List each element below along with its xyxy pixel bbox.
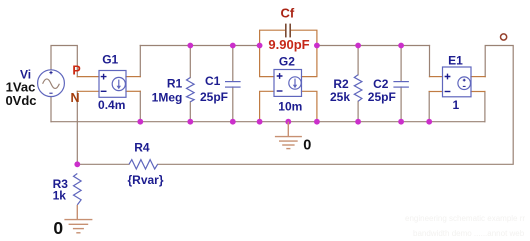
svg-text:25pF: 25pF: [368, 90, 396, 104]
svg-text:bandwidth demo ......annot we: bandwidth demo ......annot web: [413, 229, 525, 238]
svg-text:R1: R1: [167, 76, 183, 90]
svg-text:0Vdc: 0Vdc: [5, 93, 36, 108]
svg-text:0.4m: 0.4m: [98, 98, 125, 112]
svg-text:G1: G1: [102, 53, 118, 67]
svg-text:0: 0: [53, 218, 63, 238]
svg-text:{Rvar}: {Rvar}: [127, 173, 163, 187]
svg-text:G2: G2: [279, 54, 295, 68]
svg-text:1: 1: [452, 98, 459, 112]
svg-text:9.90pF: 9.90pF: [268, 37, 309, 52]
svg-text:C2: C2: [373, 77, 389, 91]
svg-text:10m: 10m: [278, 100, 302, 114]
svg-text:N: N: [70, 91, 79, 105]
svg-text:Cf: Cf: [281, 6, 295, 21]
svg-text:R2: R2: [333, 77, 349, 91]
svg-text:engineering schematic example: engineering schematic example rr: [405, 214, 525, 223]
svg-text:1Meg: 1Meg: [152, 91, 183, 105]
svg-text:25pF: 25pF: [200, 90, 228, 104]
svg-text:1k: 1k: [53, 188, 67, 202]
svg-text:C1: C1: [205, 74, 221, 88]
svg-text:P: P: [72, 64, 80, 78]
svg-text:R4: R4: [134, 141, 150, 155]
svg-text:E1: E1: [448, 54, 463, 68]
svg-text:0: 0: [303, 137, 311, 153]
svg-text:25k: 25k: [330, 90, 350, 104]
